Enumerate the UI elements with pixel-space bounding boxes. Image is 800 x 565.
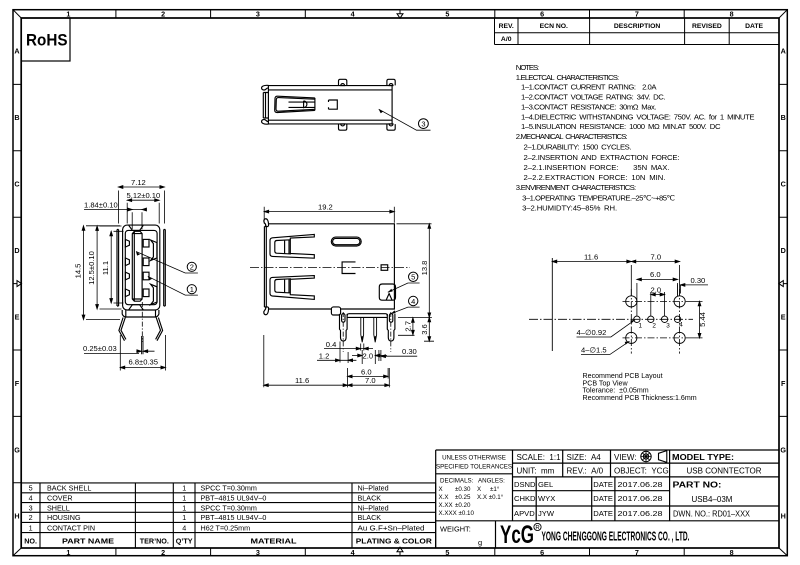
dim 0.25 (84, 351, 155, 353)
top view left flange (263, 93, 268, 119)
svg-text:PBT–4815 UL94V–0: PBT–4815 UL94V–0 (201, 513, 267, 522)
svg-text:H: H (14, 512, 19, 521)
front view right leg (156, 318, 163, 341)
dim 19.2 (264, 207, 394, 224)
dim 6.0 pcb (637, 279, 678, 316)
svg-text:X: X (477, 486, 481, 493)
svg-text:VIEW:: VIEW: (614, 453, 637, 462)
svg-text:2017.06.28: 2017.06.28 (618, 480, 663, 489)
svg-text:CONTACT PIN: CONTACT PIN (47, 523, 95, 532)
svg-text:0.30: 0.30 (691, 276, 706, 285)
svg-text:7: 7 (635, 548, 639, 557)
dim 6.8 (120, 335, 165, 371)
svg-text:B: B (14, 113, 19, 122)
svg-text:3.6: 3.6 (420, 324, 429, 335)
svg-text:Ni–Plated: Ni–Plated (358, 503, 389, 512)
svg-text:SPCC T=0.30mm: SPCC T=0.30mm (201, 484, 257, 493)
pcb hole big bottom-left (626, 332, 637, 343)
title block frame (436, 450, 779, 548)
svg-text:COVER: COVER (47, 494, 73, 503)
svg-text:0.30: 0.30 (402, 347, 417, 356)
svg-text:6.8±0.35: 6.8±0.35 (129, 357, 159, 366)
svg-text:G: G (14, 445, 20, 454)
svg-text:3.ENVIRENMENT CHARACTERISTICS:: 3.ENVIRENMENT CHARACTERISTICS: (516, 183, 637, 192)
svg-text:PBT–4815 UL94V–0: PBT–4815 UL94V–0 (201, 494, 267, 503)
svg-text:1: 1 (182, 503, 186, 512)
front view tongue (132, 231, 142, 301)
svg-text:MATERIAL: MATERIAL (251, 536, 298, 545)
top view body (268, 86, 392, 124)
RoHS box (21, 18, 70, 61)
svg-text:DATE: DATE (593, 509, 613, 518)
svg-text:4: 4 (679, 322, 683, 329)
front view contact squares (143, 239, 149, 247)
svg-text:X.XX: X.XX (439, 502, 453, 509)
svg-text:F: F (781, 379, 786, 388)
pcb centerline vertical right (679, 289, 681, 354)
svg-text:F: F (15, 379, 20, 388)
svg-text:1.84±0.10: 1.84±0.10 (84, 201, 118, 210)
pcb layout group (552, 258, 685, 351)
front view center pin (142, 336, 143, 354)
pcb label 4-d0.92 (577, 320, 636, 337)
svg-text:E: E (15, 313, 20, 322)
svg-text:5: 5 (445, 548, 449, 557)
corner diagonal bottom-left (13, 548, 21, 556)
svg-text:5: 5 (445, 10, 449, 19)
svg-text:DECIMALS:: DECIMALS: (440, 478, 474, 485)
dim 5.44 (686, 301, 703, 338)
svg-text:g: g (478, 538, 482, 547)
pcb hole small 1 (634, 316, 640, 322)
svg-text:TER’NO.: TER’NO. (140, 536, 169, 545)
svg-text:ANGLES:: ANGLES: (478, 478, 505, 485)
svg-text:11.1: 11.1 (101, 261, 110, 275)
center arrow top (397, 10, 403, 19)
top view mounting tab bottom-1 (339, 124, 347, 130)
svg-text:±0.25: ±0.25 (455, 494, 471, 501)
svg-text:SHELL: SHELL (47, 503, 70, 512)
left border ticks (13, 84, 21, 482)
svg-text:±0.30: ±0.30 (455, 486, 471, 493)
pcb centerline row bottom (623, 337, 686, 339)
svg-text:1: 1 (182, 494, 186, 503)
svg-text:1.ELECTCAL CHARACTERISTICS:: 1.ELECTCAL CHARACTERISTICS: (516, 73, 620, 82)
svg-text:7: 7 (635, 10, 639, 19)
side view dim texts (295, 202, 429, 385)
title block sign rows (514, 480, 663, 518)
svg-text:1–1.CONTACT CURRENT RATING: 2: 1–1.CONTACT CURRENT RATING: 2.0A (521, 83, 657, 92)
svg-text:13.8: 13.8 (420, 261, 429, 276)
top view mounting tab top-1 (339, 79, 347, 85)
side view body outline (268, 224, 394, 309)
side view right peg (387, 314, 395, 341)
svg-text:DSND: DSND (514, 480, 536, 489)
svg-text:BACK SHELL: BACK SHELL (47, 484, 91, 493)
svg-text:1–3.CONTACT RESISTANCE: 30mΩ M: 1–3.CONTACT RESISTANCE: 30mΩ Max. (521, 103, 657, 112)
svg-text:2–1.DURABILITY: 1500 CYCLES.: 2–1.DURABILITY: 1500 CYCLES. (524, 143, 632, 152)
svg-text:3: 3 (29, 503, 33, 512)
svg-text:4: 4 (182, 523, 186, 532)
svg-text:DWN. NO.: RD01–XXX: DWN. NO.: RD01–XXX (673, 510, 751, 519)
svg-text:REV.: REV. (499, 23, 514, 30)
svg-text:USB CONNTECTOR: USB CONNTECTOR (687, 466, 762, 475)
pcb hole small 2 (648, 316, 654, 322)
border zone letters right (780, 47, 786, 521)
svg-text:3: 3 (256, 10, 260, 19)
svg-text:HOUSING: HOUSING (47, 513, 81, 522)
svg-text:X: X (439, 486, 443, 493)
svg-text:1: 1 (182, 484, 186, 493)
svg-text:1: 1 (182, 513, 186, 522)
svg-text:2: 2 (161, 10, 165, 19)
svg-text:±0.20: ±0.20 (455, 502, 471, 509)
svg-text:X.X: X.X (439, 494, 449, 501)
svg-text:NO.: NO. (24, 536, 37, 545)
corner diagonal top-left (13, 10, 21, 18)
svg-text:ECN NO.: ECN NO. (540, 23, 568, 30)
pcb dim texts (584, 253, 707, 327)
pcb pad numbers (639, 322, 684, 330)
svg-text:±1°: ±1° (490, 486, 500, 493)
top view small rect (329, 100, 338, 109)
svg-text:WEIGHT:: WEIGHT: (440, 525, 471, 534)
svg-text:2–2.2.EXTRACTION FORCE: 10N MI: 2–2.2.EXTRACTION FORCE: 10N MIN. (524, 173, 666, 182)
svg-text:0.4: 0.4 (326, 340, 337, 349)
dim 1.2 (317, 342, 356, 364)
svg-text:1: 1 (29, 523, 33, 532)
svg-text:B: B (781, 113, 786, 122)
svg-text:DATE: DATE (593, 494, 613, 503)
svg-text:4: 4 (29, 494, 33, 503)
side view left flange (264, 227, 268, 308)
svg-text:6.0: 6.0 (650, 270, 661, 279)
pcb note text (583, 372, 697, 402)
svg-text:YcG: YcG (500, 521, 534, 549)
top view group (262, 79, 396, 130)
svg-text:G: G (780, 445, 786, 454)
svg-text:5: 5 (29, 484, 33, 493)
bottom border ticks (116, 548, 684, 556)
pcb hole big top-left (626, 296, 637, 307)
svg-text:1: 1 (66, 10, 70, 19)
svg-text:3: 3 (666, 323, 670, 330)
svg-text:2.0: 2.0 (363, 352, 374, 361)
svg-text:19.2: 19.2 (318, 202, 333, 211)
revision table (495, 18, 780, 45)
callout 2 (136, 252, 198, 274)
svg-text:5.44: 5.44 (698, 312, 707, 327)
top view hook bottom-left (262, 120, 269, 125)
svg-text:D: D (781, 246, 786, 255)
notes text block (516, 63, 755, 212)
top view hook top-left (262, 85, 269, 90)
pcb hole big bottom-right (674, 332, 685, 343)
right border ticks (779, 84, 787, 416)
front view left leg (119, 318, 126, 341)
svg-text:1: 1 (66, 548, 70, 557)
svg-text:JYW: JYW (538, 509, 555, 518)
svg-text:1: 1 (639, 323, 643, 330)
side view pin 1 (361, 317, 364, 342)
dim 2.0 (352, 350, 387, 364)
svg-text:5.12±0.10: 5.12±0.10 (127, 191, 161, 200)
side view pin 2 (374, 317, 377, 342)
svg-text:3–2.HUMIDTY:45–85% RH.: 3–2.HUMIDTY:45–85% RH. (522, 203, 617, 212)
center arrow right (779, 281, 788, 287)
svg-text:12.5±0.10: 12.5±0.10 (87, 251, 96, 285)
side view lower latch (270, 276, 314, 300)
view angle projection symbols (641, 451, 667, 463)
svg-text:7.0: 7.0 (651, 253, 662, 262)
svg-text:A: A (14, 47, 19, 56)
svg-text:Au G.F+Sn–Plated: Au G.F+Sn–Plated (358, 523, 425, 532)
svg-text:11.6: 11.6 (295, 376, 309, 385)
svg-text:APVD: APVD (514, 509, 535, 518)
svg-text:3: 3 (256, 548, 260, 557)
top view mounting tab bottom-2 (387, 124, 395, 130)
svg-text:3–1.OPERATING TEMPERATURE.–25℃: 3–1.OPERATING TEMPERATURE.–25℃~+85℃ (522, 193, 675, 202)
side view group (264, 219, 396, 343)
svg-text:SPECIFIED TOLERANCES: SPECIFIED TOLERANCES (436, 464, 512, 471)
svg-text:H: H (781, 512, 786, 521)
svg-text:7.0: 7.0 (365, 376, 376, 385)
top border ticks (116, 10, 684, 18)
front view cover outline (123, 225, 160, 310)
svg-text:3: 3 (421, 119, 425, 128)
title block tolerance header (436, 455, 512, 471)
front view top notch (129, 225, 143, 230)
svg-text:H62 T=0.25mm: H62 T=0.25mm (201, 523, 251, 532)
svg-text:DESCRIPTION: DESCRIPTION (614, 23, 661, 30)
title block tolerance values (439, 478, 506, 518)
pcb reference line (551, 258, 553, 351)
front view dimensions (82, 186, 165, 371)
side view upper latch (270, 234, 314, 258)
svg-text:6.0: 6.0 (361, 367, 372, 376)
svg-text:R: R (535, 525, 540, 531)
svg-text:A: A (781, 47, 786, 56)
svg-text:BLACK: BLACK (358, 494, 382, 503)
svg-text:Recommend PCB Thickness:1.6mm: Recommend PCB Thickness:1.6mm (583, 394, 697, 402)
side view pin holder bar (347, 314, 387, 318)
border zone letters left (14, 47, 20, 521)
svg-text:2–2.INSERTION AND EXTRACTION F: 2–2.INSERTION AND EXTRACTION FORCE: (524, 153, 680, 162)
svg-text:1.2: 1.2 (319, 352, 330, 361)
svg-text:A/0: A/0 (501, 36, 512, 43)
svg-text:X.X ±0.1°: X.X ±0.1° (477, 494, 504, 501)
svg-text:2: 2 (161, 548, 165, 557)
svg-text:4: 4 (351, 548, 355, 557)
svg-text:CHKD: CHKD (514, 494, 536, 503)
parts list table (21, 483, 435, 548)
svg-text:RoHS: RoHS (26, 31, 68, 50)
side view center small square (381, 265, 388, 271)
border zone numbers bottom (66, 548, 733, 557)
corner diagonal top-right (779, 10, 787, 18)
svg-text:Ni–Plated: Ni–Plated (358, 484, 389, 493)
pcb centerline vertical left (630, 289, 632, 354)
front view bottom notch (129, 305, 143, 310)
dim 2.7 (398, 318, 415, 336)
side view corner tab (331, 307, 340, 315)
top view mounting tab top-2 (387, 79, 395, 85)
svg-text:11.6: 11.6 (584, 253, 598, 262)
parts list text (24, 484, 433, 546)
svg-text:2–2.1.INSERTION FORCE: 35N: 2–2.1.INSERTION FORCE: 35N MAX. (524, 163, 670, 172)
svg-text:1: 1 (190, 285, 194, 294)
pcb hole small 3 (661, 316, 667, 322)
svg-text:5: 5 (411, 273, 415, 282)
svg-text:C: C (14, 180, 19, 189)
dim 5.12 (127, 200, 159, 223)
svg-text:PLATING & COLOR: PLATING & COLOR (356, 536, 433, 545)
front view left latch bumps (125, 239, 129, 296)
corner diagonal bottom-right (779, 548, 787, 556)
pcb label 4-d1.5 (581, 341, 630, 354)
title block model/part (672, 453, 762, 519)
svg-text:UNIT: mm: UNIT: mm (517, 466, 555, 475)
front view dim texts (73, 178, 160, 366)
svg-text:2: 2 (29, 513, 33, 522)
svg-text:REV.: A/0: REV.: A/0 (567, 466, 604, 475)
dim 7.12 (118, 187, 164, 224)
svg-text:2017.06.28: 2017.06.28 (618, 509, 663, 518)
front view pin centerline (141, 302, 143, 342)
svg-text:1–5.INSULATION RESISTANCE: 100: 1–5.INSULATION RESISTANCE: 1000 MΩ MIN.A… (521, 122, 721, 131)
svg-text:BLACK: BLACK (358, 513, 382, 522)
svg-text:8: 8 (730, 548, 734, 557)
svg-text:SPCC T=0.30mm: SPCC T=0.30mm (201, 503, 257, 512)
pcb dimensions (552, 260, 708, 338)
pcb centerline horizontal (529, 318, 693, 320)
svg-text:6: 6 (540, 548, 544, 557)
svg-text:SIZE: A4: SIZE: A4 (567, 453, 602, 462)
svg-text:4–∅1.5: 4–∅1.5 (581, 345, 607, 354)
svg-text:DATE: DATE (593, 480, 613, 489)
dim 14.5 (84, 226, 121, 320)
svg-text:SCALE: 1:1: SCALE: 1:1 (517, 453, 562, 462)
side view dimensions (264, 207, 434, 388)
svg-text:MODEL TYPE:: MODEL TYPE: (672, 453, 734, 462)
svg-text:6: 6 (540, 10, 544, 19)
dim 1.84 (84, 210, 143, 230)
dim 2.0 pcb (651, 292, 665, 316)
dim 6.0 (348, 368, 389, 379)
svg-text:REVISED: REVISED (692, 23, 722, 30)
border zone numbers top (66, 10, 733, 19)
dim 0.4 (324, 344, 373, 351)
svg-text:2: 2 (190, 263, 194, 272)
svg-text:4: 4 (351, 10, 355, 19)
front view right latch hooks (151, 240, 157, 261)
svg-text:8: 8 (730, 10, 734, 19)
side view flange hook top (264, 219, 269, 227)
svg-text:OBJECT: YCG: OBJECT: YCG (614, 466, 669, 475)
svg-text:4–∅0.92: 4–∅0.92 (577, 328, 607, 337)
side view flange hook bottom (264, 307, 269, 315)
svg-text:14.5: 14.5 (73, 264, 82, 279)
svg-text:X.XXX ±0.10: X.XXX ±0.10 (439, 510, 475, 517)
center arrow left (13, 281, 22, 287)
svg-text:7.12: 7.12 (131, 178, 146, 187)
svg-text:2.MECHANICAL CHARACTERISTICS:: 2.MECHANICAL CHARACTERISTICS: (516, 132, 628, 141)
dim 0.30 side (379, 350, 417, 361)
side view oval slot (331, 237, 361, 246)
svg-text:2.0: 2.0 (651, 286, 662, 295)
dim 11.1 (111, 231, 123, 303)
svg-text:2.7: 2.7 (404, 321, 413, 332)
svg-text:PART NO:: PART NO: (673, 481, 722, 490)
svg-text:YONG CHENGGONG ELECTRONICS CO.: YONG CHENGGONG ELECTRONICS CO. , LTD. (542, 530, 690, 544)
svg-text:PART NAME: PART NAME (62, 536, 114, 545)
dim 0.30 pcb (678, 285, 708, 296)
dim 13.8 and 3.6 (397, 224, 435, 341)
svg-text:Q’TY: Q’TY (176, 536, 193, 545)
dim 12.5 (97, 226, 121, 309)
svg-text:WYX: WYX (538, 494, 555, 503)
svg-text:1–4.DIELECTRIC WITHSTANDING VO: 1–4.DIELECTRIC WITHSTANDING VOLTAGE: 750… (521, 112, 755, 121)
side view centerline (250, 266, 410, 268)
front view bottom bracket (122, 310, 159, 317)
svg-text:NOTES:: NOTES: (516, 63, 540, 72)
pcb hole big top-right (674, 296, 685, 307)
center arrow bottom (397, 547, 403, 556)
callout 5 (388, 272, 420, 292)
top view latch pocket (275, 96, 315, 112)
svg-text:4: 4 (411, 297, 415, 306)
svg-text:2017.06.28: 2017.06.28 (618, 494, 663, 503)
svg-text:2: 2 (652, 323, 656, 330)
callout 4 (391, 296, 420, 313)
front view group (117, 225, 165, 354)
svg-text:USB4–03M: USB4–03M (692, 495, 733, 504)
callout 3 (379, 109, 431, 130)
callout 1 (148, 276, 198, 295)
side view dimple (379, 284, 395, 300)
side view left peg (340, 314, 348, 341)
revision table headers (499, 23, 764, 43)
front view shell side plates (117, 230, 165, 307)
svg-text:DATE: DATE (745, 23, 763, 30)
dim 11.6 and 7.0 (264, 335, 390, 387)
svg-text:GEL: GEL (538, 480, 553, 489)
pcb centerline row top (623, 300, 686, 302)
svg-text:C: C (781, 180, 786, 189)
front view interior opening (125, 230, 157, 304)
svg-text:1–2.CONTACT VOLTAGE RATING: 34: 1–2.CONTACT VOLTAGE RATING: 34V. DC. (521, 93, 666, 102)
title block scale unit size rev (517, 453, 669, 475)
svg-text:0.25±0.03: 0.25±0.03 (83, 344, 117, 353)
side view peg centerlines (343, 312, 391, 352)
dim 11.6 and 7.0 pcb (552, 262, 679, 296)
svg-text:E: E (781, 313, 786, 322)
side view center bracket (342, 262, 355, 274)
svg-text:UNLESS OTHERWISE: UNLESS OTHERWISE (442, 455, 506, 462)
svg-text:D: D (14, 246, 19, 255)
pcb hole small 4 (674, 316, 680, 322)
